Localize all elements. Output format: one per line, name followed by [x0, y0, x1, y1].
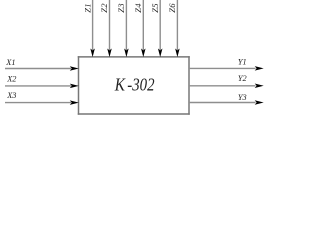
svg-text:Z3: Z3	[116, 3, 126, 13]
svg-text:Z2: Z2	[99, 3, 109, 13]
svg-text:Z1: Z1	[82, 3, 92, 13]
svg-text:Z6: Z6	[167, 3, 177, 13]
svg-text:Y3: Y3	[238, 93, 247, 102]
svg-text:X1: X1	[5, 58, 15, 67]
svg-text:-302: -302	[127, 74, 154, 94]
svg-text:X2: X2	[6, 74, 16, 83]
svg-text:Y1: Y1	[238, 58, 247, 67]
svg-text:Z4: Z4	[133, 3, 143, 13]
svg-text:Z5: Z5	[150, 3, 160, 13]
svg-text:Y2: Y2	[238, 74, 247, 83]
svg-text:X3: X3	[6, 91, 16, 100]
svg-text:K: K	[114, 74, 126, 94]
